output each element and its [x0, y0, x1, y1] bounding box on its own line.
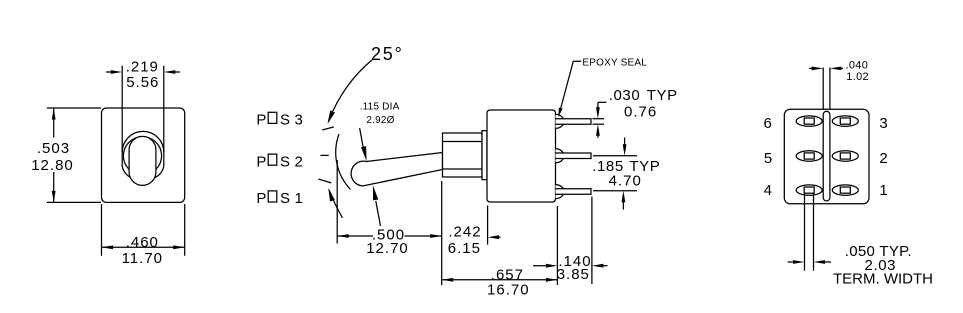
.242/6.15 dimension right outside arrow	[499, 236, 501, 238]
svg-text:25°: 25°	[371, 44, 404, 64]
svg-text:.040: .040	[846, 59, 869, 71]
svg-text:P: P	[256, 153, 266, 170]
svg-text:16.70: 16.70	[487, 281, 530, 298]
svg-text:.030: .030	[609, 87, 641, 104]
front view: bushing opening left side line / extension line for .219	[121, 66, 123, 167]
svg-text:TYP: TYP	[647, 87, 678, 104]
svg-text:S: S	[280, 153, 290, 170]
svg-text:P: P	[256, 190, 266, 207]
svg-text:S: S	[280, 112, 290, 129]
body right edge extension line	[556, 206, 558, 285]
front view: bushing opening top arc	[122, 131, 164, 152]
bottom view: terminal 6 slot rectangle	[804, 118, 814, 124]
svg-text:11.70: 11.70	[122, 250, 163, 267]
.185 TYP dimension arrows	[624, 138, 626, 147]
bottom view: terminal 5 slot rectangle	[804, 153, 814, 159]
bottom view: center slot	[823, 111, 830, 201]
dimension .503/12.80 extension lines	[47, 107, 101, 109]
bottom view: terminal 2 oval	[832, 151, 858, 161]
svg-text:.460: .460	[126, 234, 159, 251]
.140/3.85 dimension arrows	[533, 265, 547, 267]
bottom view: terminal 2 slot rectangle	[840, 153, 850, 159]
svg-text:.242: .242	[448, 223, 481, 240]
POS 1 leader tail with arrow	[329, 190, 342, 218]
terminal 3 bump (bottom)	[556, 185, 565, 199]
terminal 2 blade (middle)	[556, 153, 592, 159]
svg-text:5: 5	[764, 150, 772, 167]
EPOXY SEAL leader	[559, 61, 581, 113]
front view: opening bottom-left transition curve	[122, 166, 131, 177]
.030 TYP dimension: blade edge extension lines	[593, 118, 605, 120]
svg-text:.219: .219	[126, 58, 159, 75]
svg-text:.503: .503	[37, 140, 70, 157]
svg-text:1: 1	[295, 190, 303, 207]
bottom view: terminal 6 oval	[796, 116, 822, 126]
side view: toggle lever (tapered capsule)	[351, 153, 442, 186]
svg-text:P: P	[256, 112, 266, 129]
.500/12.70 dimension: left extension line	[336, 160, 338, 244]
svg-text:6: 6	[764, 115, 772, 132]
dimension .219/5.56 dimension line and arrows	[106, 71, 112, 73]
svg-text:2: 2	[879, 150, 887, 167]
bottom view: terminal 3 oval	[832, 116, 858, 126]
bottom view: terminal 4 slot rectangle	[804, 187, 814, 193]
front view: toggle lever (capsule, front)	[129, 136, 156, 185]
.500/12.70 dimension line and arrows	[337, 235, 373, 237]
svg-text:.115 DIA: .115 DIA	[360, 102, 400, 113]
.050 TYP dimension arrows	[788, 261, 794, 263]
terminal 2 bump (middle)	[556, 149, 565, 163]
front view: switch panel body (rounded square)	[102, 108, 185, 202]
.040/1.02 dimension arrows	[809, 67, 812, 69]
side view: bushing (threaded)	[443, 133, 483, 177]
side view: switch body	[487, 110, 556, 202]
front view: bushing opening right side line / extension line for .219	[163, 66, 165, 167]
bottom view: terminal 1 slot rectangle	[840, 187, 850, 193]
.185 TYP dimension: terminal centerline extension lines	[593, 155, 637, 157]
svg-text:1: 1	[879, 182, 887, 199]
front view: opening bottom-right transition curve	[155, 166, 164, 177]
terminal end extension line	[591, 197, 593, 285]
svg-text:3: 3	[295, 112, 303, 129]
.050 TYP extension lines from terminal 4	[804, 193, 806, 270]
svg-text:4: 4	[764, 182, 772, 199]
svg-text:S: S	[280, 190, 290, 207]
POS 2 tick mark	[320, 154, 328, 156]
.040/1.02 dimension extension lines	[822, 68, 824, 110]
.115 DIA leader arrow (bottom)	[376, 201, 381, 226]
svg-text:2: 2	[295, 153, 303, 170]
bottom view: switch base outline	[784, 109, 869, 204]
bottom view: terminal 3 slot rectangle	[840, 118, 850, 124]
.657/16.70 dimension line and arrows	[442, 279, 558, 281]
front view: bushing hole circle	[123, 137, 161, 175]
bushing face extension line	[441, 181, 443, 285]
svg-text:EPOXY SEAL: EPOXY SEAL	[582, 57, 647, 68]
.115 DIA leader arrow (top)	[360, 128, 364, 148]
svg-text:12.80: 12.80	[31, 157, 74, 174]
svg-text:3.85: 3.85	[557, 266, 590, 283]
25 degree leader arc from text	[329, 60, 372, 121]
svg-text:1.02: 1.02	[846, 71, 869, 83]
svg-text:TERM. WIDTH: TERM. WIDTH	[833, 271, 933, 288]
bottom view: terminal 1 oval	[832, 185, 858, 195]
dimension .503/12.80 dimension line with arrows	[53, 108, 55, 138]
dimension .460/11.70 dimension line with arrows	[102, 246, 185, 248]
svg-text:0.76: 0.76	[624, 103, 657, 120]
POS 3 tick mark	[322, 127, 334, 130]
POS 1 tick mark	[318, 179, 331, 183]
side view: locking ring/washer	[482, 131, 487, 180]
side view: lever swing arc	[336, 134, 351, 190]
bottom view: terminal 4 oval	[796, 185, 822, 195]
terminal 3 blade (bottom)	[556, 189, 592, 195]
.030 TYP dimension arrows	[598, 101, 607, 103]
svg-text:4.70: 4.70	[609, 173, 642, 190]
terminal 1 blade (top)	[556, 119, 592, 125]
svg-text:2.92Ø: 2.92Ø	[366, 115, 394, 126]
svg-text:6.15: 6.15	[448, 240, 481, 257]
svg-text:5.56: 5.56	[126, 74, 159, 91]
svg-text:3: 3	[879, 115, 887, 132]
svg-text:12.70: 12.70	[366, 240, 409, 257]
terminal 1 bump (top)	[556, 114, 565, 128]
bottom view: terminal 5 oval	[796, 151, 822, 161]
body left edge extension line	[487, 206, 489, 245]
dimension .460/11.70 extension lines	[101, 204, 103, 256]
